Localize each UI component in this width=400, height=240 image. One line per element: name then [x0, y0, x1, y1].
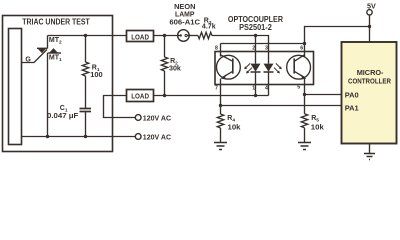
wire bottom rail [22, 136, 136, 138]
light arrows LED1 [244, 63, 252, 73]
wire LOAD2 left to AC terminal 1 [104, 96, 136, 118]
node R2 bottom junction [163, 94, 166, 97]
wire neon to R3 [189, 35, 198, 37]
svg-text:120V AC: 120V AC [143, 132, 171, 141]
wire pin1 drop [255, 85, 257, 96]
ground R4 [214, 143, 227, 150]
node R2 top junction [163, 34, 166, 37]
svg-text:MT2: MT2 [49, 37, 62, 46]
phototransistor left [217, 55, 241, 106]
wire pin5 to R5 [304, 95, 306, 114]
svg-text:CONTROLLER: CONTROLLER [348, 77, 391, 86]
svg-text:LOAD: LOAD [131, 32, 149, 41]
wire pin 3 jog [256, 36, 269, 52]
svg-text:2: 2 [252, 46, 255, 52]
LED 1 [251, 52, 261, 85]
phototransistor right [287, 55, 311, 95]
optocoupler U1 box [215, 52, 314, 85]
wire PA1 [221, 105, 342, 107]
node 5V junction [368, 25, 371, 28]
node C1 bottom junction [84, 135, 87, 138]
svg-text:120V AC: 120V AC [143, 113, 171, 122]
svg-text:100: 100 [90, 70, 102, 79]
wire pin 2 drop [255, 36, 257, 52]
svg-text:TRIAC UNDER TEST: TRIAC UNDER TEST [22, 17, 90, 26]
ground microcontroller [364, 144, 375, 160]
svg-text:30k: 30k [169, 64, 181, 73]
wire pin 6 drop [304, 44, 306, 57]
wire LOAD1 to neon lamp [154, 35, 178, 37]
bottom bar [48, 52, 62, 54]
ground R5 [298, 143, 311, 150]
svg-text:4.7k: 4.7k [202, 22, 216, 31]
left triangle [37, 48, 46, 53]
capacitor C1 [80, 109, 92, 137]
node pin2 junction [254, 34, 257, 37]
svg-text:PA1: PA1 [345, 103, 359, 112]
AC terminal 1 [135, 115, 141, 121]
wire R3 to LED anodes [212, 35, 256, 37]
svg-text:G: G [25, 56, 31, 63]
neon lamp [178, 30, 190, 42]
node MT1 bottom junction [46, 135, 49, 138]
right triangle [49, 48, 58, 53]
svg-text:PS2501-2: PS2501-2 [239, 23, 272, 32]
resistor R5 [301, 114, 307, 143]
svg-text:6: 6 [300, 46, 303, 52]
MT1 lead [47, 53, 49, 137]
triac under test [22, 36, 62, 137]
wire pin 8 drop [220, 44, 222, 57]
MT2 lead [47, 36, 49, 49]
enclosure box TRIAC UNDER TEST [3, 16, 113, 152]
LED 2 [264, 52, 274, 85]
svg-text:5V: 5V [367, 1, 376, 10]
node PA1 junction [219, 104, 222, 107]
wire pin4 drop [268, 85, 270, 96]
resistor R2 [161, 36, 167, 96]
wire 5V rail to optocoupler [305, 27, 370, 44]
wire LED cathode net [154, 95, 269, 97]
svg-text:5: 5 [297, 85, 300, 91]
node cathode junction pin1 [254, 94, 257, 97]
svg-text:7: 7 [215, 86, 218, 92]
svg-text:10k: 10k [311, 122, 324, 131]
svg-text:MT1: MT1 [49, 55, 62, 64]
svg-text:PA0: PA0 [345, 90, 359, 99]
node pin6 junction [303, 42, 306, 45]
node junction R1 top [84, 34, 87, 37]
resistor R1 [82, 36, 88, 109]
resistor R3 [198, 32, 212, 38]
load box upper [127, 31, 154, 42]
svg-text:3: 3 [265, 46, 268, 52]
load box lower [127, 90, 154, 102]
microcontroller U2 box [342, 42, 397, 144]
top bar [37, 47, 48, 49]
wire collector rail pin8 to pin6 [221, 43, 305, 45]
light arrows LED2 [274, 63, 282, 73]
node PA0 junction [303, 93, 306, 96]
5V supply terminal [367, 10, 372, 42]
gate lead [22, 50, 48, 63]
resistor R4 [217, 106, 223, 143]
test socket rectangle [9, 29, 22, 145]
wire PA0 [305, 94, 342, 96]
svg-text:10k: 10k [228, 122, 241, 131]
AC terminal 2 [135, 134, 141, 140]
wire top rail [48, 35, 127, 37]
svg-text:LOAD: LOAD [131, 91, 149, 100]
svg-text:8: 8 [215, 45, 218, 51]
svg-text:0.047 μF: 0.047 μF [47, 111, 79, 120]
svg-text:606-A1C: 606-A1C [169, 18, 200, 27]
svg-text:4: 4 [265, 85, 268, 91]
